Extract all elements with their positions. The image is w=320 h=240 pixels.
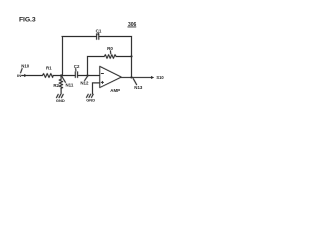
svg-text:IN: IN [17, 73, 21, 78]
svg-text:R0: R0 [107, 46, 113, 51]
svg-text:N12: N12 [80, 81, 89, 86]
svg-text:C2: C2 [74, 64, 80, 69]
svg-text:N13: N13 [134, 85, 143, 90]
svg-text:C1: C1 [96, 28, 102, 33]
svg-text:R2: R2 [53, 83, 59, 88]
svg-text:AMP: AMP [110, 88, 120, 93]
svg-text:FIG.3: FIG.3 [19, 16, 36, 23]
svg-text:GND: GND [56, 98, 65, 103]
svg-text:R1: R1 [46, 65, 52, 70]
svg-text:S10: S10 [156, 75, 164, 80]
svg-text:306: 306 [128, 22, 137, 28]
svg-text:N10: N10 [21, 63, 29, 68]
svg-text:GND: GND [86, 97, 95, 102]
svg-text:N11: N11 [66, 82, 74, 87]
